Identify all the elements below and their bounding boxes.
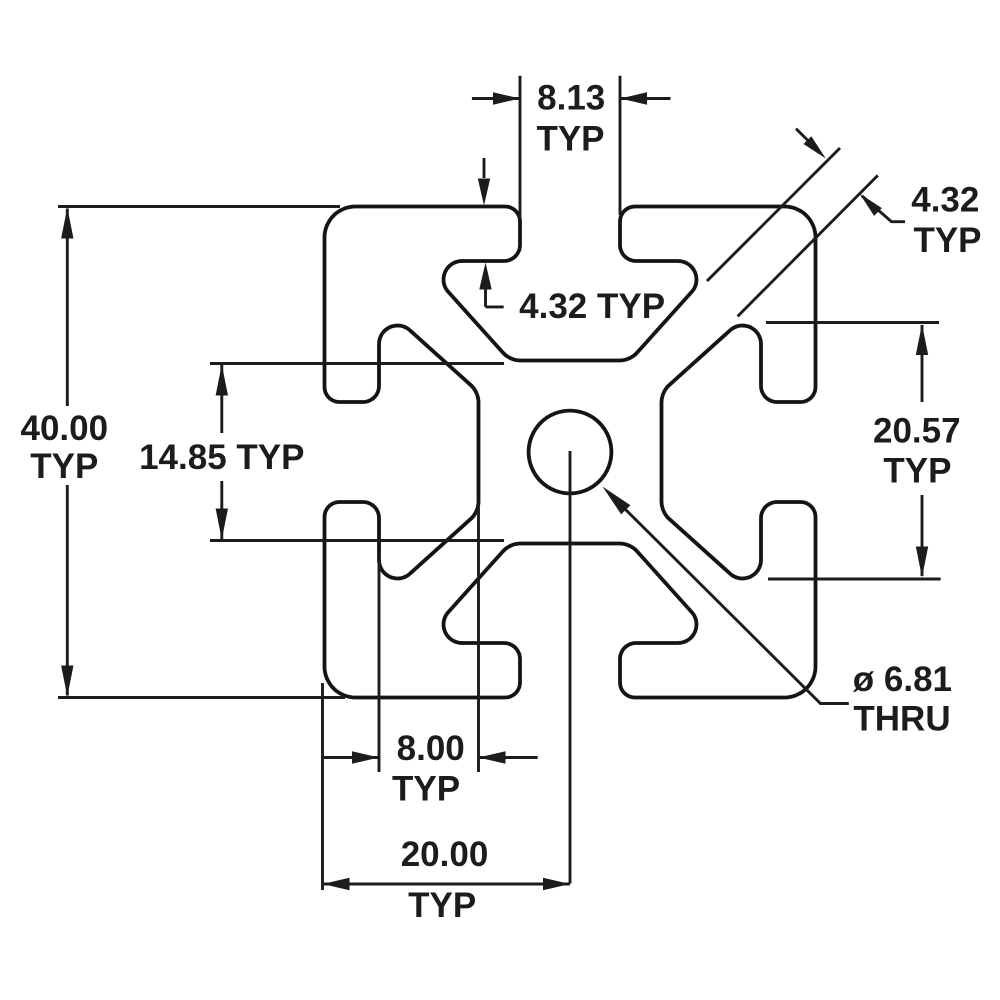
dim 4.32 TYP (web) arrow 1 pointing down-right [796,129,812,145]
center line through hole (20.00 right extension) [569,451,572,884]
dim 8.13 TYP dimension line left stub + arrow [472,97,520,100]
dim 4.32 TYP (lip) upper arrow pointing down at surface [483,158,486,178]
svg-text:TYP: TYP [883,452,951,491]
svg-text:8.13: 8.13 [537,78,605,117]
svg-text:4.32: 4.32 [911,180,979,219]
dim 40.00 TYP extension line bottom [58,696,345,699]
dim 20.57 TYP extension line bottom [768,578,941,581]
svg-text:20.00: 20.00 [401,835,489,874]
dim 14.85 TYP dimension line + arrows [220,365,223,433]
svg-text:ø 6.81: ø 6.81 [853,660,952,699]
dim 20.57 TYP dimension line + arrows [921,325,924,402]
dim 4.32 TYP (lip) lower arrow pointing up at lip underside [484,288,487,307]
dim 14.85 TYP extension line top [210,362,504,365]
dim 4.32 TYP (web) extension line 2 [738,175,878,316]
dim 40.00 TYP extension line top [58,205,340,208]
dim 8.00 TYP extension line right [477,503,480,772]
svg-text:20.57: 20.57 [873,412,961,451]
dim 20.00 TYP dimension line + arrows [323,883,571,886]
svg-text:4.32 TYP: 4.32 TYP [519,287,665,326]
svg-text:40.00: 40.00 [21,409,109,448]
dim 8.00 TYP extension line left [378,558,381,772]
dim 8.13 TYP extension line left [519,76,522,218]
svg-text:TYP: TYP [30,447,98,486]
dim 4.32 TYP (web) arrow 2 with leader tail [862,196,905,222]
svg-text:14.85 TYP: 14.85 TYP [139,438,304,477]
dim 20.57 TYP extension line top [766,321,939,324]
svg-text:TYP: TYP [408,886,476,925]
leader arrow to center hole [622,506,849,704]
svg-text:TYP: TYP [392,770,460,809]
svg-text:THRU: THRU [853,700,950,739]
dim 8.13 TYP extension line right [619,76,622,215]
extrusion profile outline [325,207,816,698]
dim 20.00 TYP extension line left [321,683,324,890]
center hole [529,411,612,494]
dim 8.13 TYP dimension line right stub + arrow [620,97,671,100]
dim 40.00 TYP dimension line + arrows [66,209,69,407]
svg-text:TYP: TYP [536,119,604,158]
dim 8.00 TYP dimension line left stub + arrow [323,756,379,759]
dim 4.32 TYP (web) extension line 1 [707,148,840,281]
svg-text:TYP: TYP [913,221,981,260]
dim 14.85 TYP extension line bottom [210,539,504,542]
dim 8.00 TYP dimension line right stub + arrow [479,756,538,759]
svg-text:8.00: 8.00 [397,729,465,768]
